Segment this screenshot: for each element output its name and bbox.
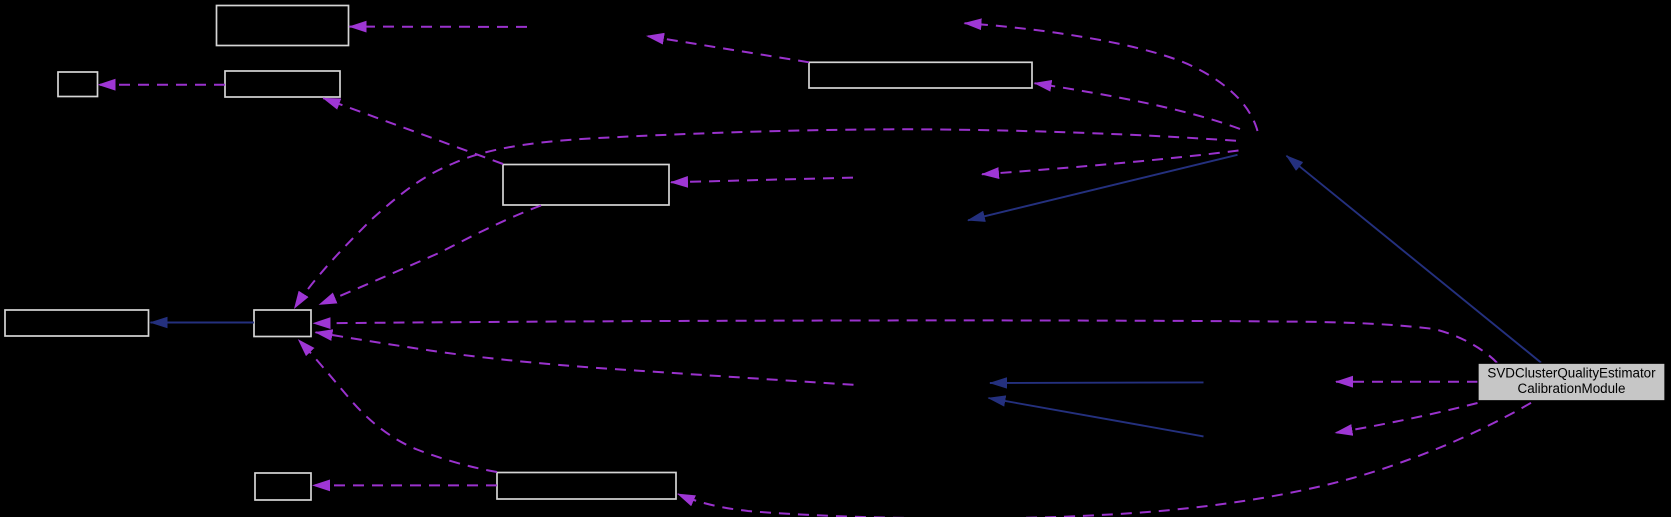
svg-text:SVDClusterQualityEstimator: SVDClusterQualityEstimator <box>1487 365 1656 380</box>
svg-text:CalibrationModule: CalibrationModule <box>1518 381 1626 396</box>
